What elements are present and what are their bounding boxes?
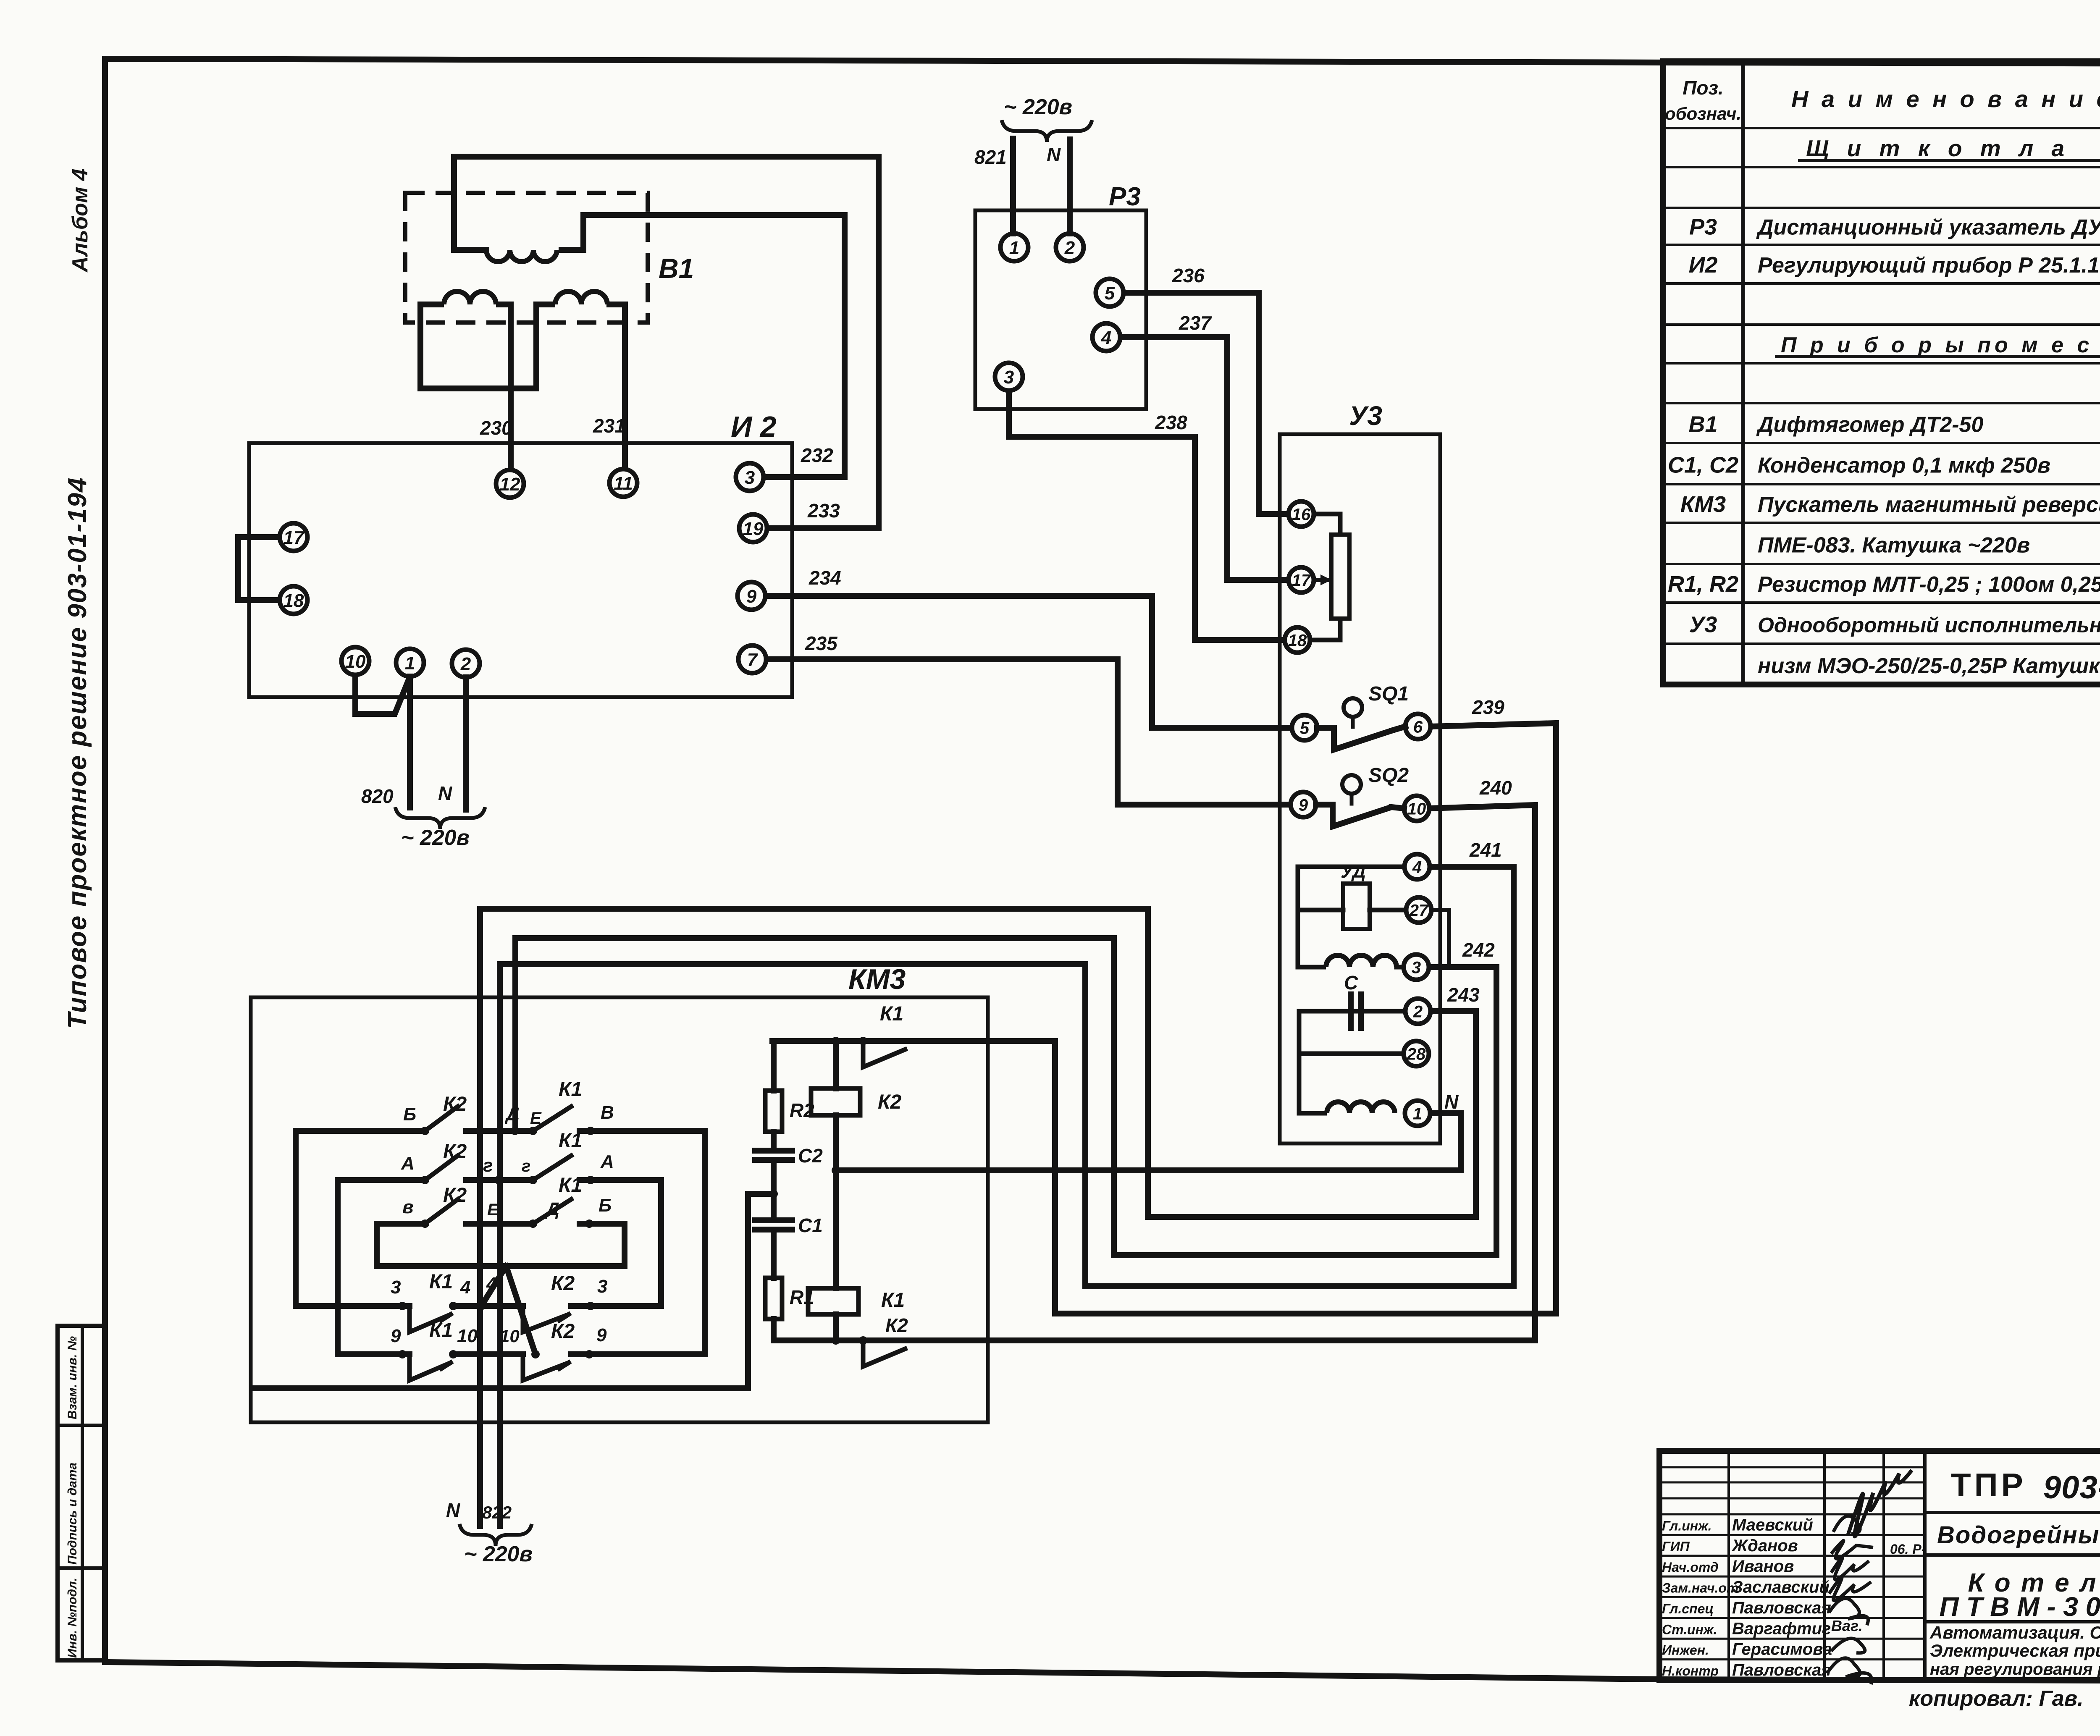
svg-text:К1: К1	[429, 1271, 453, 1293]
svg-text:П Т В М - 3 0 М: П Т В М - 3 0 М	[1940, 1592, 2100, 1622]
svg-text:19: 19	[743, 519, 764, 539]
svg-text:233: 233	[807, 500, 840, 522]
svg-text:К1: К1	[881, 1289, 905, 1311]
svg-text:12: 12	[500, 474, 520, 495]
svg-text:В: В	[601, 1102, 614, 1123]
svg-text:К2: К2	[443, 1184, 467, 1206]
svg-text:К2: К2	[885, 1314, 908, 1336]
svg-text:1: 1	[405, 653, 415, 674]
svg-text:~ 220в: ~ 220в	[401, 826, 470, 850]
svg-text:10: 10	[1407, 800, 1426, 818]
svg-text:К1: К1	[559, 1130, 582, 1152]
svg-text:2: 2	[1064, 238, 1075, 258]
svg-text:10: 10	[500, 1326, 520, 1346]
svg-text:11: 11	[614, 473, 633, 494]
svg-text:238: 238	[1155, 412, 1187, 433]
svg-text:06. Р-: 06. Р-	[1890, 1542, 1926, 1557]
svg-text:4: 4	[1412, 858, 1422, 876]
svg-text:Н а и м е н о в а н и е: Н а и м е н о в а н и е	[1791, 86, 2100, 112]
svg-text:К1: К1	[880, 1003, 903, 1025]
svg-text:У3: У3	[1689, 612, 1717, 637]
svg-text:Павловская: Павловская	[1732, 1661, 1831, 1679]
svg-text:К1: К1	[559, 1078, 582, 1101]
svg-text:239: 239	[1472, 696, 1504, 718]
svg-text:Ст.инж.: Ст.инж.	[1662, 1622, 1717, 1637]
svg-text:Альбом 4: Альбом 4	[68, 168, 92, 273]
svg-text:К1: К1	[559, 1174, 582, 1196]
svg-text:Регулирующий прибор Р: Регулирующий прибор Р 25.1.1	[1758, 253, 2100, 278]
svg-text:Взам. инв. №: Взам. инв. №	[66, 1336, 79, 1419]
svg-text:1: 1	[1009, 238, 1019, 258]
svg-text:ПМЕ-083. Катушка ~220в: ПМЕ-083. Катушка ~220в	[1758, 533, 2030, 558]
svg-text:Жданов: Жданов	[1731, 1537, 1798, 1555]
svg-text:Пускатель магнитный реверсив: Пускатель магнитный реверсивный	[1758, 493, 2100, 517]
svg-text:Дистанционный указатель ДУП-: Дистанционный указатель ДУП-М	[1756, 215, 2100, 239]
svg-text:9: 9	[1299, 796, 1308, 814]
svg-text:240: 240	[1479, 777, 1512, 799]
svg-text:3: 3	[1412, 958, 1421, 977]
svg-text:И 2: И 2	[731, 410, 777, 443]
svg-text:821: 821	[974, 146, 1007, 168]
svg-text:5: 5	[1105, 283, 1115, 304]
svg-text:Павловская: Павловская	[1732, 1599, 1831, 1617]
svg-text:К1: К1	[429, 1319, 453, 1342]
svg-text:N: N	[446, 1499, 460, 1521]
svg-text:27: 27	[1409, 901, 1429, 920]
svg-text:Заславский: Заславский	[1732, 1578, 1830, 1597]
svg-text:низм МЭО-250/25-0,25Р Катуш: низм МЭО-250/25-0,25Р Катушка~220в	[1758, 654, 2100, 678]
svg-text:820: 820	[361, 785, 394, 807]
svg-text:N: N	[438, 782, 452, 804]
svg-text:ТПР: ТПР	[1951, 1466, 2026, 1503]
svg-text:3: 3	[391, 1277, 401, 1298]
svg-text:г: г	[522, 1157, 530, 1175]
svg-text:235: 235	[805, 632, 838, 654]
svg-text:Подпись и дата: Подпись и дата	[66, 1463, 79, 1565]
svg-text:9: 9	[391, 1326, 401, 1346]
svg-text:3: 3	[1004, 367, 1014, 388]
svg-text:копировал: Гав.: копировал: Гав.	[1909, 1686, 2084, 1711]
svg-text:6: 6	[1413, 718, 1423, 736]
svg-text:243: 243	[1447, 984, 1480, 1006]
svg-text:Автоматизация. Схема: Автоматизация. Схема	[1929, 1623, 2100, 1642]
svg-text:4: 4	[1101, 328, 1111, 348]
svg-text:Типовое проектное решение 9: Типовое проектное решение 903-01-194	[63, 477, 92, 1029]
svg-text:г: г	[483, 1155, 493, 1176]
svg-text:в: в	[402, 1197, 414, 1217]
svg-text:Е: Е	[530, 1109, 542, 1128]
svg-text:В1: В1	[1688, 412, 1717, 437]
svg-text:18: 18	[283, 590, 304, 611]
svg-text:Б: Б	[403, 1104, 416, 1125]
svg-text:28: 28	[1407, 1045, 1426, 1063]
svg-text:Однооборотный исполнительный: Однооборотный исполнительный меха-	[1758, 614, 2100, 637]
svg-text:Д: Д	[504, 1104, 520, 1125]
svg-text:УД: УД	[1341, 861, 1366, 882]
svg-text:А: А	[401, 1153, 415, 1174]
svg-text:Дифтягомер ДТ2-50: Дифтягомер ДТ2-50	[1756, 412, 1983, 437]
svg-text:17: 17	[1292, 571, 1311, 590]
svg-text:У3: У3	[1349, 401, 1382, 431]
svg-text:3: 3	[597, 1276, 607, 1297]
svg-text:Иванов: Иванов	[1732, 1557, 1794, 1576]
svg-text:Варгафтиг: Варгафтиг	[1732, 1619, 1831, 1638]
svg-text:Р3: Р3	[1689, 214, 1717, 239]
svg-text:3: 3	[745, 467, 755, 488]
svg-text:С1: С1	[798, 1214, 823, 1236]
svg-text:обознач.: обознач.	[1665, 104, 1741, 123]
svg-text:ГИП: ГИП	[1662, 1539, 1690, 1554]
svg-text:КМ3: КМ3	[1680, 492, 1726, 517]
svg-text:ная регулирования разрежения: ная регулирования разрежения	[1930, 1660, 2100, 1678]
svg-text:Ваг.: Ваг.	[1831, 1617, 1863, 1634]
svg-text:10: 10	[457, 1326, 478, 1346]
svg-text:2: 2	[1413, 1002, 1423, 1021]
svg-text:SQ2: SQ2	[1368, 764, 1409, 787]
svg-text:7: 7	[747, 650, 759, 670]
svg-text:В1: В1	[659, 253, 694, 284]
svg-text:903-01-194: 903-01-194	[2043, 1470, 2100, 1505]
svg-text:~ 220в: ~ 220в	[1004, 95, 1072, 119]
svg-text:К2: К2	[878, 1091, 902, 1113]
svg-text:Инв. №подл.: Инв. №подл.	[66, 1578, 79, 1658]
svg-text:С: С	[1344, 972, 1358, 994]
svg-text:~ 220в: ~ 220в	[464, 1542, 533, 1566]
svg-text:Щ и т к о т л а: Щ и т к о т л а	[1806, 135, 2070, 161]
svg-text:241: 241	[1469, 839, 1502, 861]
svg-text:2: 2	[460, 654, 471, 674]
svg-text:П р и б о р ы по м е с т у: П р и б о р ы по м е с т у	[1781, 333, 2100, 357]
svg-text:КМ3: КМ3	[848, 963, 906, 995]
svg-text:232: 232	[801, 444, 833, 466]
svg-text:9: 9	[746, 586, 757, 607]
svg-text:822: 822	[482, 1503, 512, 1522]
svg-text:16: 16	[1292, 505, 1311, 524]
svg-text:Водогрейные котлы типа ПТВМ: Водогрейные котлы типа ПТВМ	[1937, 1521, 2100, 1549]
svg-text:R1, R2: R1, R2	[1668, 572, 1738, 597]
svg-text:4: 4	[460, 1277, 470, 1298]
svg-text:234: 234	[808, 567, 841, 589]
svg-text:N: N	[1047, 144, 1061, 165]
svg-text:Гл.спец: Гл.спец	[1662, 1601, 1714, 1616]
svg-text:5: 5	[1300, 719, 1310, 737]
svg-text:4: 4	[486, 1274, 496, 1294]
svg-text:Резистор МЛТ-0,25 ; 100ом: Резистор МЛТ-0,25 ; 100ом 0,25вт	[1758, 572, 2100, 597]
svg-text:N: N	[1444, 1091, 1459, 1113]
svg-text:Нач.отд: Нач.отд	[1662, 1560, 1719, 1575]
svg-text:Зам.нач.от: Зам.нач.от	[1662, 1581, 1738, 1596]
svg-text:242: 242	[1462, 939, 1495, 961]
svg-text:Электрическая принципиаль-: Электрическая принципиаль-	[1930, 1641, 2100, 1660]
svg-text:Гл.инж.: Гл.инж.	[1662, 1518, 1712, 1533]
svg-text:А: А	[600, 1151, 614, 1172]
svg-text:Герасимова: Герасимова	[1732, 1640, 1832, 1659]
svg-text:236: 236	[1172, 265, 1205, 286]
svg-text:237: 237	[1179, 312, 1212, 334]
svg-text:1: 1	[1413, 1104, 1422, 1123]
svg-text:9: 9	[596, 1325, 607, 1345]
svg-text:С2: С2	[798, 1145, 823, 1167]
svg-text:10: 10	[345, 651, 366, 672]
svg-text:Н.контр: Н.контр	[1662, 1663, 1719, 1678]
svg-text:С1, С2: С1, С2	[1668, 453, 1738, 478]
svg-text:17: 17	[283, 527, 305, 548]
svg-text:Маевский: Маевский	[1732, 1516, 1813, 1534]
svg-text:Р3: Р3	[1109, 182, 1141, 211]
svg-text:К2: К2	[551, 1320, 575, 1343]
svg-text:Е: Е	[487, 1201, 499, 1219]
svg-text:Конденсатор 0,1 мкф 250в: Конденсатор 0,1 мкф 250в	[1758, 454, 2050, 478]
svg-text:231: 231	[593, 415, 625, 437]
svg-text:К2: К2	[443, 1093, 467, 1115]
svg-text:Инжен.: Инжен.	[1662, 1643, 1709, 1658]
svg-text:К2: К2	[551, 1272, 575, 1295]
svg-text:Б: Б	[598, 1195, 612, 1216]
svg-text:К2: К2	[443, 1141, 467, 1163]
svg-text:SQ1: SQ1	[1368, 683, 1409, 705]
svg-text:Поз.: Поз.	[1683, 77, 1723, 99]
svg-text:И2: И2	[1689, 252, 1718, 278]
svg-text:Д: Д	[544, 1199, 559, 1219]
svg-text:18: 18	[1288, 631, 1307, 650]
svg-text:230: 230	[480, 417, 512, 439]
